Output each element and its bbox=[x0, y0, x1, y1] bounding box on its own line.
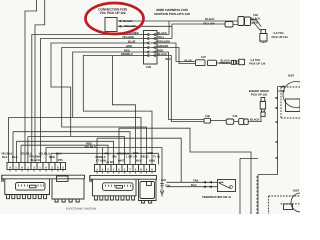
svg-text:BLACK: BLACK bbox=[251, 18, 260, 21]
svg-text:GRN: GRN bbox=[126, 45, 132, 48]
svg-text:YEL: YEL bbox=[112, 156, 118, 159]
svg-text:C27: C27 bbox=[201, 56, 206, 59]
svg-text:BLK: BLK bbox=[2, 156, 8, 159]
svg-text:BLUE: BLUE bbox=[185, 60, 193, 63]
svg-text:YEL/BLK: YEL/BLK bbox=[85, 146, 97, 149]
svg-text:C35: C35 bbox=[233, 115, 238, 118]
svg-text:ENGINE SPEED: ENGINE SPEED bbox=[249, 90, 269, 93]
svg-text:YEL 3: YEL 3 bbox=[141, 156, 149, 159]
svg-text:C33: C33 bbox=[161, 179, 166, 182]
svg-text:C84: C84 bbox=[253, 14, 258, 17]
svg-text:PICK-UP 138: PICK-UP 138 bbox=[251, 94, 268, 97]
svg-text:BLK: BLK bbox=[12, 156, 18, 159]
svg-text:DIST: DIST bbox=[293, 190, 299, 193]
svg-text:BLACK: BLACK bbox=[205, 18, 214, 21]
svg-text:BLACK: BLACK bbox=[123, 20, 132, 23]
svg-text:RED/BLK: RED/BLK bbox=[220, 62, 232, 65]
svg-text:IGNITION PICK-UPS 128: IGNITION PICK-UPS 128 bbox=[154, 12, 190, 16]
svg-text:PPL: PPL bbox=[105, 153, 111, 156]
svg-text:LT GRN: LT GRN bbox=[96, 160, 106, 163]
svg-text:ORG: ORG bbox=[149, 160, 155, 163]
svg-text:BLACK: BLACK bbox=[31, 159, 40, 162]
svg-text:TEMPERATURE SW 41: TEMPERATURE SW 41 bbox=[202, 196, 232, 199]
svg-text:WHT: WHT bbox=[118, 160, 124, 163]
svg-text:DIST: DIST bbox=[288, 74, 294, 77]
svg-text:5-8 TDC: 5-8 TDC bbox=[274, 32, 284, 35]
svg-text:PPL: PPL bbox=[58, 159, 64, 162]
svg-text:C28: C28 bbox=[146, 66, 151, 69]
svg-text:PICK UP 134: PICK UP 134 bbox=[272, 36, 289, 39]
svg-text:YELLOW: YELLOW bbox=[203, 23, 215, 26]
svg-text:ELECTRONIC IGNITION: ELECTRONIC IGNITION bbox=[66, 208, 96, 211]
svg-text:BLK: BLK bbox=[136, 160, 142, 163]
svg-text:PICK UP 136: PICK UP 136 bbox=[249, 63, 266, 66]
svg-text:BLACK: BLACK bbox=[250, 118, 259, 121]
svg-text:TDC PICK UP 102: TDC PICK UP 102 bbox=[100, 11, 126, 15]
svg-text:BLUE: BLUE bbox=[128, 41, 136, 44]
svg-text:J1 W1: J1 W1 bbox=[106, 161, 114, 164]
svg-text:TAN: TAN bbox=[193, 180, 198, 183]
svg-text:YELLOW: YELLOW bbox=[124, 25, 136, 28]
svg-text:L GR 2 B: L GR 2 B bbox=[126, 156, 137, 159]
svg-text:RED: RED bbox=[49, 156, 55, 159]
svg-text:TAN: TAN bbox=[133, 152, 138, 155]
svg-text:RED/BLK: RED/BLK bbox=[121, 53, 133, 56]
svg-text:BLK: BLK bbox=[56, 153, 62, 156]
svg-text:YEL/GRN: YEL/GRN bbox=[122, 36, 134, 39]
svg-text:TL 41: TL 41 bbox=[153, 156, 160, 159]
svg-text:C30: C30 bbox=[205, 115, 210, 118]
svg-text:BLK: BLK bbox=[191, 184, 197, 187]
